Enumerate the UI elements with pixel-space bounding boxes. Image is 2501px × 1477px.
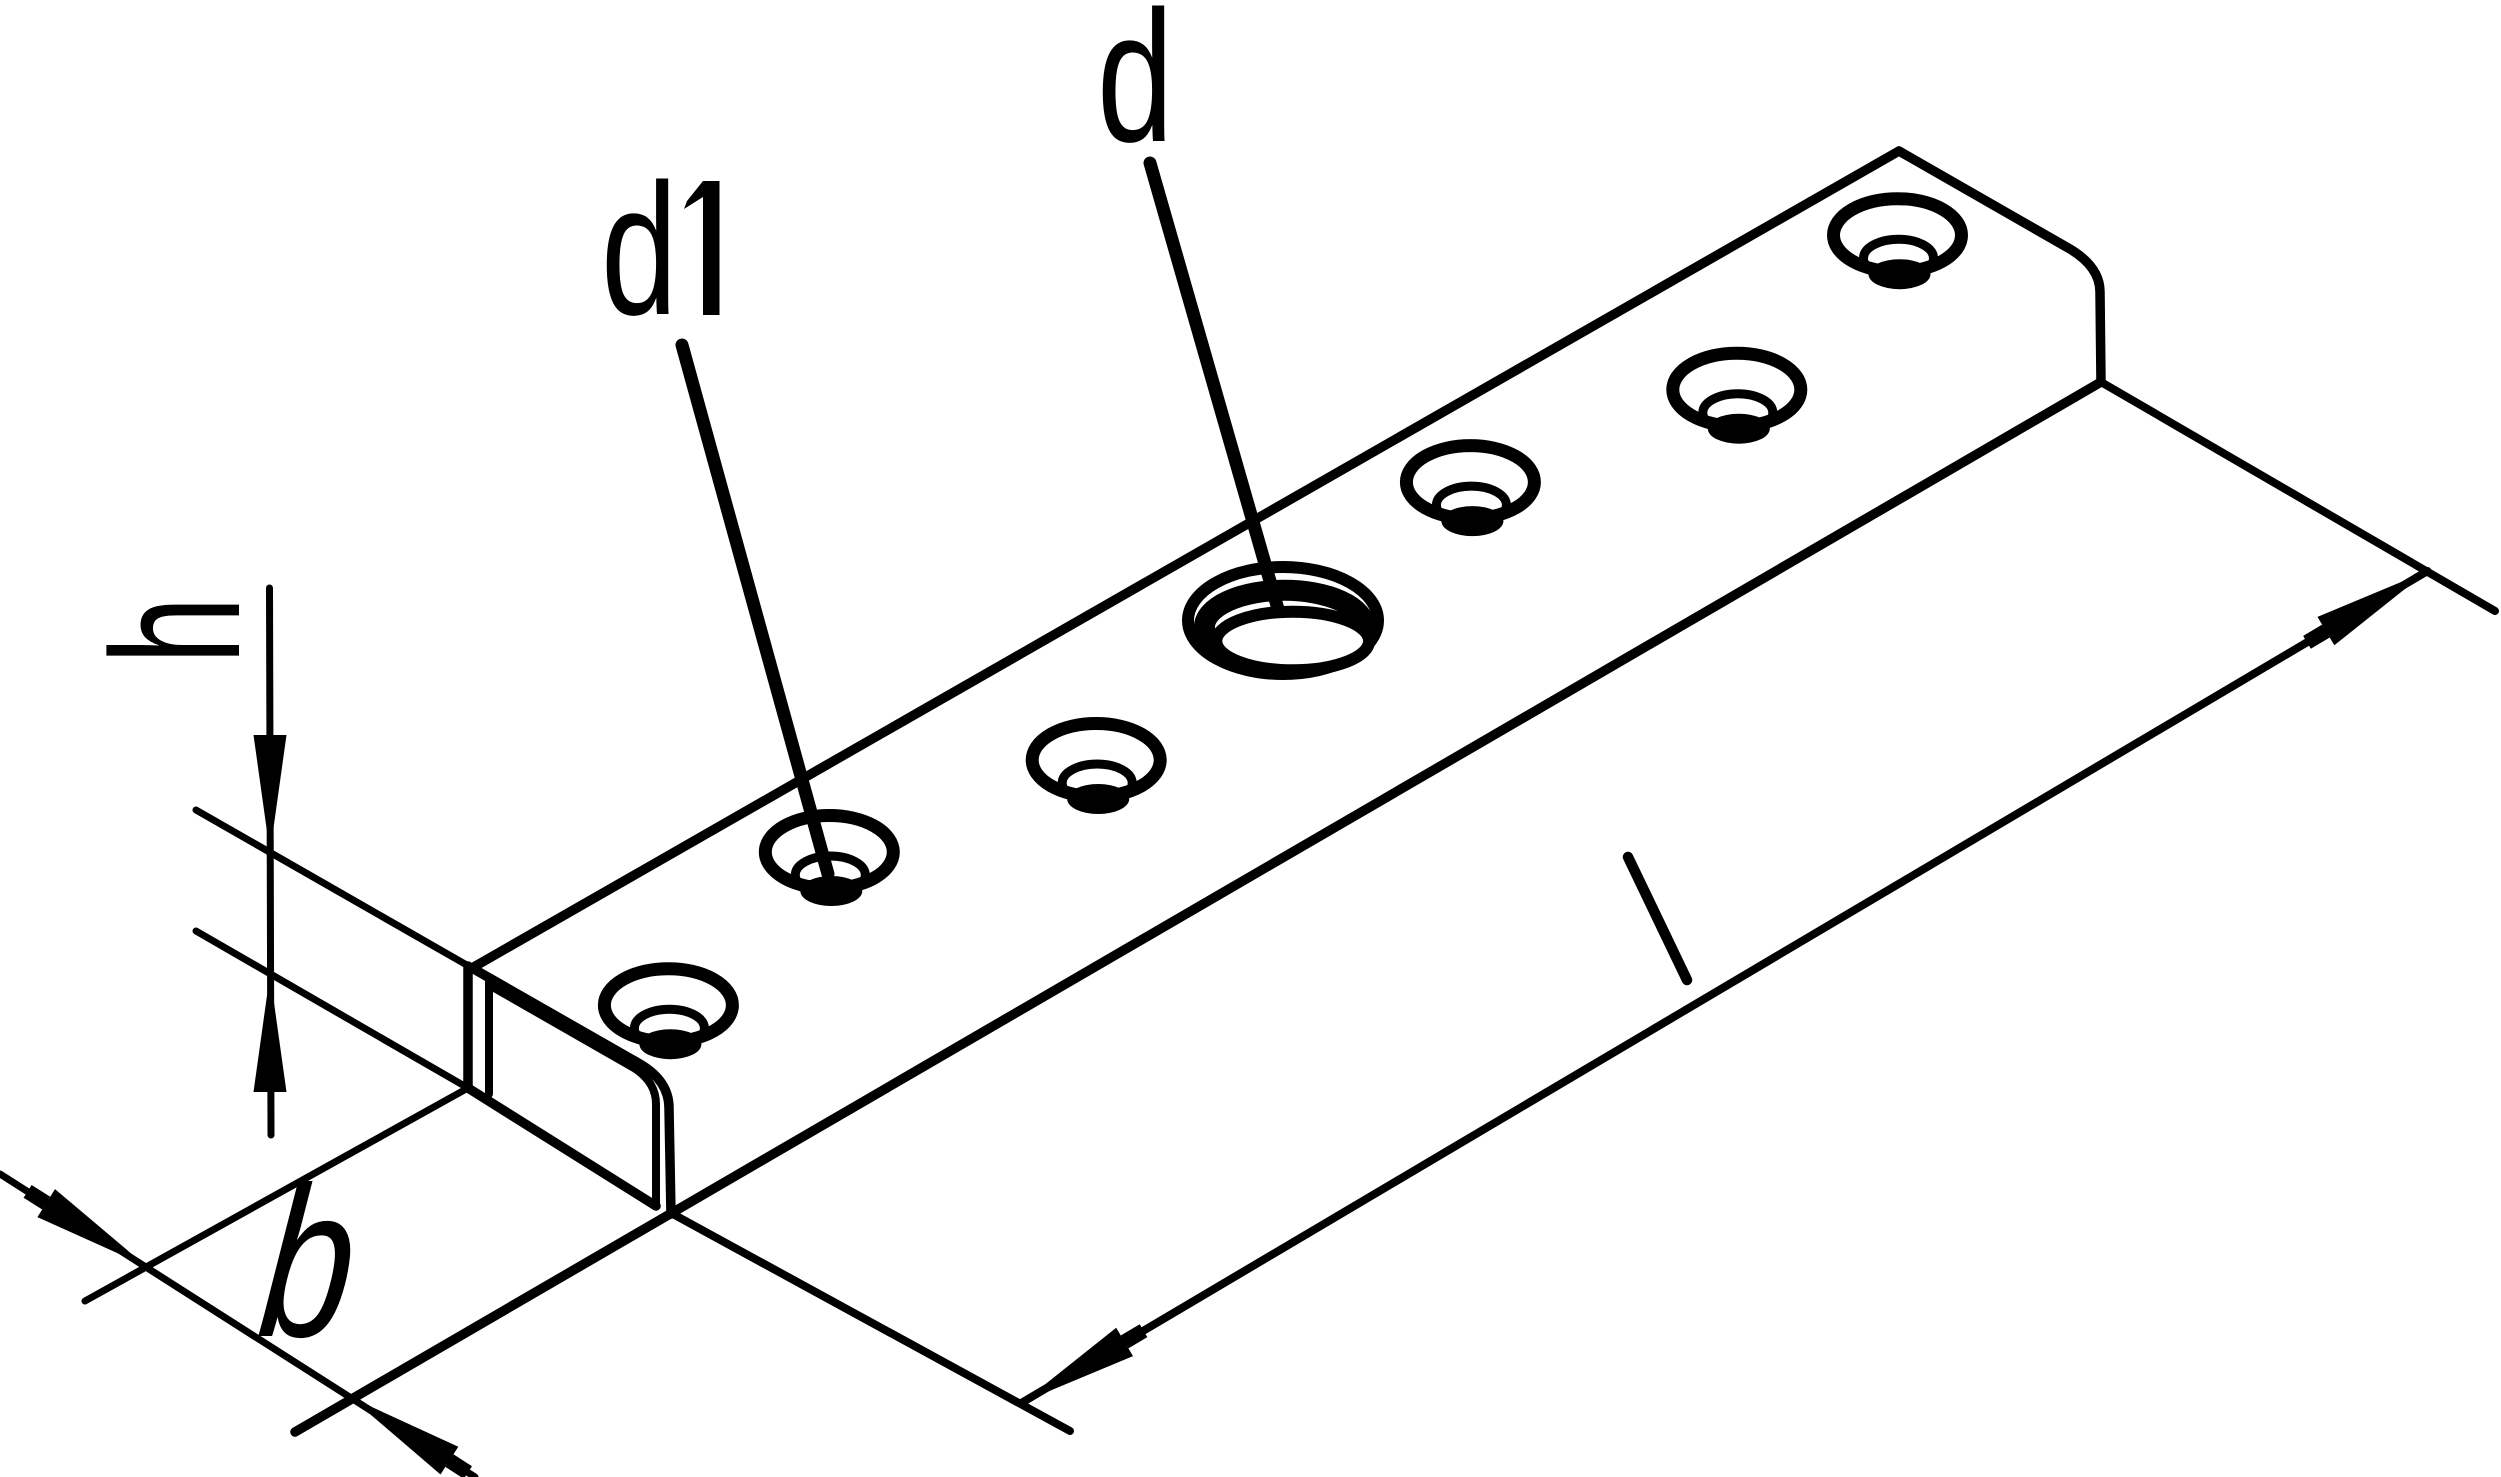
svg-text:d: d (601, 144, 677, 354)
svg-text:d: d (1097, 0, 1173, 181)
svg-text:h: h (74, 597, 278, 664)
